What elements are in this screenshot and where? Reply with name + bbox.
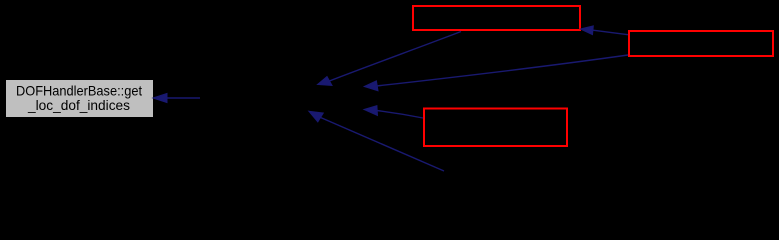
wire edge: caller box 2 -> central node bbox=[364, 55, 628, 91]
wire edge: caller box 1 -> central node bbox=[318, 32, 462, 86]
svg-text:DOFHandlerBase::get: DOFHandlerBase::get bbox=[16, 83, 142, 99]
node DOFHandlerBase::get_loc_dof_indices (current, gray) bbox=[6, 80, 154, 118]
node caller box 2 (red, top right) bbox=[629, 31, 773, 56]
svg-text:_loc_dof_indices: _loc_dof_indices bbox=[27, 97, 130, 113]
wire edge: hidden bottom caller -> central node bbox=[309, 111, 444, 171]
node caller box 3 (red, middle) bbox=[424, 109, 567, 147]
wire edge: caller box 3 -> central node bbox=[364, 106, 423, 118]
wire edge: caller box 2 -> caller box 1 bbox=[580, 26, 628, 35]
node caller box 1 (red, top middle) bbox=[413, 6, 580, 30]
wire edge: central node -> DOFHandlerBase::get_loc_dof_indices bbox=[153, 93, 200, 102]
